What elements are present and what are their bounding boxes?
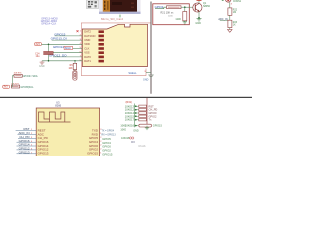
svg-text:(R31): (R31) bbox=[126, 100, 133, 104]
svg-text:GND: GND bbox=[39, 65, 45, 68]
svg-text:10K015: 10K015 bbox=[125, 114, 135, 118]
svg-text:GPIO14--CLK: GPIO14--CLK bbox=[41, 22, 56, 25]
pullup row GPIO0 bbox=[125, 111, 157, 115]
+3V3 boxed flag bottom left bbox=[3, 85, 10, 89]
capacitor C14 bbox=[43, 44, 53, 61]
wire pin6 VSS bbox=[53, 52, 82, 54]
resistor R22 vertical bbox=[228, 8, 232, 15]
svg-text:3V3: 3V3 bbox=[3, 87, 8, 89]
svg-text:RST: RST bbox=[149, 104, 155, 108]
svg-text:10K017: 10K017 bbox=[125, 118, 135, 122]
svg-text:GND: GND bbox=[176, 18, 182, 21]
svg-text:10K R76: 10K R76 bbox=[14, 73, 23, 75]
ESP left net wires bbox=[16, 131, 37, 154]
svg-text:8266: 8266 bbox=[55, 104, 61, 108]
svg-text:SHELL: SHELL bbox=[128, 71, 137, 75]
svg-text:10K018: 10K018 bbox=[121, 137, 130, 140]
common green rail bbox=[134, 104, 136, 128]
long vertical wire right of card bbox=[150, 2, 152, 94]
wire GPIO2 to R20 bbox=[155, 7, 167, 9]
I2C pullup resistor R8 bbox=[11, 85, 19, 88]
svg-text:GPIO14: GPIO14 bbox=[53, 45, 64, 49]
svg-text:CMD: CMD bbox=[84, 38, 90, 42]
svg-text:DAT3/CD: DAT3/CD bbox=[84, 34, 95, 38]
highlight box around GPIO2 circuit bbox=[153, 4, 190, 25]
svg-text:CLK: CLK bbox=[84, 46, 89, 50]
pullup row RST bbox=[125, 104, 154, 108]
microSD photo thumbnail bbox=[99, 0, 141, 14]
resistor R21 vertical bbox=[183, 12, 187, 21]
card contact pads bbox=[99, 30, 104, 62]
net label GPIO14 highlighted SCLK bbox=[53, 45, 73, 50]
ESP8266 module body bbox=[36, 108, 99, 157]
microSD card body bbox=[82, 24, 147, 66]
pin mark left of circle bbox=[222, 0, 224, 2]
Q1 collector wire to top flag bbox=[198, 0, 200, 4]
Q1 emitter wire down bbox=[198, 11, 200, 18]
svg-text:DAT2: DAT2 bbox=[84, 30, 91, 34]
sheet divider line bbox=[0, 97, 252, 98]
wire pin5 CLK bbox=[73, 48, 83, 50]
no-connect X on pin 1 bbox=[77, 30, 79, 32]
svg-text:1M: 1M bbox=[233, 12, 236, 14]
wire pin7 MISO bbox=[53, 56, 82, 58]
resistor R6 bbox=[73, 63, 77, 69]
svg-text:GPIO15: GPIO15 bbox=[102, 152, 113, 156]
wire pin4 VDD from 3V3 bbox=[42, 43, 83, 45]
svg-text:10K: 10K bbox=[69, 68, 74, 70]
U3 ESP8266 designator bbox=[55, 100, 61, 107]
resistor R20 horizontal bbox=[167, 6, 182, 9]
junction DAT1 pull bbox=[74, 60, 75, 61]
svg-text:VSS: VSS bbox=[84, 51, 90, 55]
junction at cap bottom bbox=[48, 60, 50, 62]
svg-text:GPIO15: GPIO15 bbox=[153, 125, 163, 128]
svg-text:Ch.Ab: Ch.Ab bbox=[138, 145, 146, 148]
wire conn to R22 bbox=[229, 2, 231, 8]
wire R23 to gnd bbox=[229, 28, 231, 30]
svg-text:GPIO13: GPIO13 bbox=[19, 150, 30, 154]
svg-text:GPIO15: GPIO15 bbox=[87, 152, 98, 156]
svg-text:3V3: 3V3 bbox=[35, 43, 40, 46]
resistor R23 vertical bbox=[228, 20, 232, 27]
ESP right pin names bbox=[87, 128, 99, 155]
wire pin3 MOSI bbox=[52, 39, 83, 41]
svg-text:TX = GPIO4: TX = GPIO4 bbox=[102, 130, 115, 132]
wire DAT1 down to R6 bbox=[74, 61, 76, 64]
ESP right pin numbers bbox=[100, 129, 102, 154]
C14 value label bbox=[35, 53, 40, 59]
wire R20 to base bbox=[181, 6, 195, 8]
ground arrow bottom right bbox=[228, 30, 233, 33]
battery connector circle top right bbox=[225, 0, 231, 2]
shell pin 9 wire bbox=[146, 72, 151, 74]
ESP left pin numbers bbox=[31, 129, 33, 154]
R21 value label bbox=[161, 12, 175, 18]
pin names inside card bbox=[84, 30, 95, 63]
pullup row GPIO2 bbox=[125, 114, 157, 118]
pullup row CH_PD bbox=[125, 108, 158, 112]
svg-text:DIO: DIO bbox=[131, 142, 135, 144]
svg-text:10K013: 10K013 bbox=[125, 104, 135, 108]
footprint thumbnail icon bbox=[87, 0, 99, 9]
svg-text:CONN1: CONN1 bbox=[233, 1, 242, 3]
card shell outline bbox=[81, 23, 150, 76]
svg-text:GPIO13_DI: GPIO13_DI bbox=[51, 37, 67, 41]
svg-text:10K0: 10K0 bbox=[120, 128, 126, 131]
svg-text:GND: GND bbox=[133, 129, 139, 132]
svg-text:SCLK: SCLK bbox=[65, 48, 71, 50]
transistor Q1 NPN bbox=[193, 3, 202, 12]
junction at base divider bbox=[184, 6, 186, 8]
wire pin8 DAT1 from cap bottom bbox=[42, 60, 82, 62]
vertical red rail below divider bbox=[146, 98, 148, 126]
junction at emitter gnd bbox=[198, 17, 200, 19]
comment note: SPI pin mapping bbox=[41, 17, 58, 25]
extra green labels right column bbox=[120, 125, 126, 132]
ground arrow on shell line bbox=[149, 75, 154, 78]
ground under C14 bbox=[40, 61, 45, 65]
I2C pullup resistor R7 bbox=[14, 74, 22, 77]
pin numbers 1-8 bbox=[80, 30, 82, 61]
pullup row Tx bbox=[125, 118, 152, 122]
svg-text:GND: GND bbox=[143, 79, 149, 82]
ESP left pin names bbox=[38, 128, 49, 155]
svg-text:GPIO2: GPIO2 bbox=[149, 114, 157, 118]
svg-text:GPIO5|SCL: GPIO5|SCL bbox=[20, 86, 34, 89]
wire junction down to R21 bbox=[184, 7, 186, 11]
svg-text:VDD: VDD bbox=[84, 42, 90, 46]
PCB antenna symbol bbox=[39, 112, 71, 122]
jumper JP1 bbox=[73, 71, 77, 81]
R22 value label bbox=[233, 10, 238, 15]
junction VDD bbox=[48, 44, 50, 46]
svg-text:S8050: S8050 bbox=[203, 5, 211, 8]
wire pin2 CS bbox=[55, 35, 83, 37]
ESP left net labels bbox=[18, 127, 30, 154]
Q1 labels bbox=[203, 2, 211, 8]
ground under R21 bbox=[183, 21, 187, 24]
svg-text:GPIO13: GPIO13 bbox=[38, 152, 49, 156]
extra net label row bbox=[121, 137, 135, 144]
ground under Q1 bbox=[197, 19, 202, 21]
power flag cut at top bbox=[197, 0, 202, 2]
pin 10 mark of card bbox=[119, 15, 121, 18]
+3V3 boxed flag bbox=[35, 43, 42, 47]
svg-text:GPIO4= SDA: GPIO4= SDA bbox=[23, 75, 38, 78]
wire joining R7 R8 bbox=[11, 76, 14, 87]
svg-text:10K0: 10K0 bbox=[120, 125, 126, 128]
wire R6 to jumper bbox=[74, 70, 76, 71]
R6 value label bbox=[69, 65, 74, 70]
R23 value label bbox=[233, 22, 238, 27]
pulldown jumper GPIO15 bbox=[125, 124, 163, 128]
svg-text:10K016: 10K016 bbox=[125, 124, 135, 128]
svg-text:1K: 1K bbox=[233, 25, 236, 27]
svg-text:R21 10K xx: R21 10K xx bbox=[161, 12, 175, 15]
svg-text:GND: GND bbox=[195, 22, 201, 25]
ground at rail bottom bbox=[145, 126, 149, 130]
wire R22 to R23 bbox=[229, 15, 231, 20]
ESP right net labels bbox=[102, 137, 113, 157]
svg-text:Micro_SD_Card: Micro_SD_Card bbox=[101, 17, 123, 21]
svg-text:10u: 10u bbox=[36, 55, 41, 58]
svg-text:DAT0: DAT0 bbox=[84, 55, 91, 59]
svg-text:DAT1: DAT1 bbox=[84, 59, 91, 63]
